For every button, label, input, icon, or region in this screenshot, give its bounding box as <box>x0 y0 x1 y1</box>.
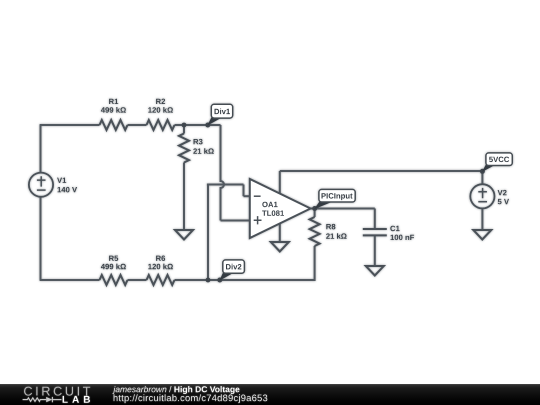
label 100 nF <box>391 235 415 241</box>
voltage source V1 <box>29 173 53 197</box>
wire R3 top lead from node <box>183 125 185 134</box>
label R8 <box>326 224 335 230</box>
node output / PICInput attachment <box>312 206 317 211</box>
wire minus route horizontal <box>207 184 244 186</box>
wire top rail segment from corner to R1 <box>40 124 100 126</box>
flag pointer PICInput <box>314 202 331 210</box>
label 120 kΩ <box>148 107 173 113</box>
wire left rail bottom (V1 minus terminal down to bottom rail) <box>40 197 42 280</box>
resistor R3 <box>179 134 189 163</box>
wire riser from Div2 junction up to minus route <box>207 185 209 282</box>
node junction riser / bottom rail <box>206 278 211 283</box>
CircuitLab logo text CIRCUIT <box>24 387 90 396</box>
wire 5VCC corner down to V2 plus terminal <box>481 171 483 185</box>
voltage source V2 <box>470 184 494 208</box>
wire bottom rail segment from V1 to R5 <box>40 279 100 281</box>
wire op-amp V+ power pin <box>279 171 281 194</box>
wire left rail top (top rail corner down to V1 plus terminal) <box>40 125 42 173</box>
wire bottom rail segment from R6 through nodes to R8 bottom <box>175 279 315 281</box>
ground below op-amp V- pin <box>271 242 289 252</box>
op-amp OA1 body <box>250 179 311 238</box>
wire minus input lead <box>244 195 250 197</box>
CircuitLab logo text LAB <box>63 396 90 403</box>
flag box 5VCC <box>486 153 512 166</box>
capacitor C1 plates <box>363 229 387 235</box>
wire minus route jog down <box>243 185 245 197</box>
flag text 5VCC <box>489 157 509 163</box>
flag text Div2 <box>226 264 241 270</box>
CircuitLab logo diode <box>46 397 52 402</box>
label 499 kΩ <box>101 107 126 113</box>
flag box Div2 <box>223 260 245 273</box>
label 21 kΩ <box>193 148 214 154</box>
flag text PICInput <box>322 193 353 200</box>
label R6 <box>156 256 165 262</box>
footer bar <box>0 384 540 405</box>
label V2 <box>498 190 507 195</box>
wire op-amp V- power pin to ground <box>279 223 281 242</box>
resistor R2 <box>147 120 175 130</box>
label V1 <box>57 178 66 183</box>
CircuitLab logo resistor squiggle <box>23 397 62 402</box>
ground below R3 <box>175 230 193 240</box>
resistor R1 <box>100 120 128 130</box>
footer url line <box>114 394 268 403</box>
op-amp inverting input marker <box>254 195 261 197</box>
wire R3 bottom lead to ground <box>183 163 185 231</box>
wire V+ rail to 5VCC corner <box>280 170 483 172</box>
wire V2 minus terminal to ground <box>481 208 483 230</box>
wire op-amp output to C1 corner <box>311 208 375 210</box>
wire R8 top lead from output node <box>314 209 316 218</box>
node 5VCC attachment <box>480 169 485 174</box>
flag pointer Div1 <box>207 117 221 126</box>
label C1 <box>390 226 399 232</box>
ground below V2 <box>473 230 491 240</box>
wire plus input lead <box>221 220 250 222</box>
wire R8 bottom lead to bottom rail <box>314 246 316 281</box>
flag pointer Div2 <box>219 272 233 281</box>
label 499 kΩ <box>101 264 126 270</box>
node junction R3 / top rail <box>182 123 187 128</box>
flag box PICInput <box>319 189 355 202</box>
wire C1 top lead <box>374 209 376 230</box>
flag text Div1 <box>215 109 231 115</box>
label 21 kΩ <box>326 233 347 239</box>
label 5 V <box>498 199 509 204</box>
wire C1 bottom lead to ground <box>374 235 376 266</box>
label TL081 <box>262 210 284 216</box>
wire top rail segment between R1 and R2 <box>128 124 147 126</box>
wire bottom rail segment between R5 and R6 <box>128 279 147 281</box>
op-amp non-inverting input marker <box>254 216 262 224</box>
label 120 kΩ <box>148 264 173 270</box>
footer credit line <box>112 386 166 394</box>
node Div2 attachment <box>217 278 222 283</box>
flag pointer 5VCC <box>482 164 496 173</box>
label R1 <box>109 99 118 104</box>
label 140 V <box>58 187 78 193</box>
ground below C1 <box>366 266 384 276</box>
wire top rail segment from R2 through node to corner <box>175 124 221 126</box>
resistor R6 <box>147 275 175 285</box>
flag box Div1 <box>211 104 232 118</box>
label R2 <box>156 99 165 104</box>
node Div1 attachment <box>205 123 210 128</box>
wire vertical from corner to plus input with hop over minus route <box>221 125 225 221</box>
label R5 <box>109 256 118 261</box>
label OA1 <box>262 202 277 208</box>
resistor R5 <box>100 275 128 285</box>
label R3 <box>194 139 203 145</box>
resistor R8 <box>310 217 320 246</box>
